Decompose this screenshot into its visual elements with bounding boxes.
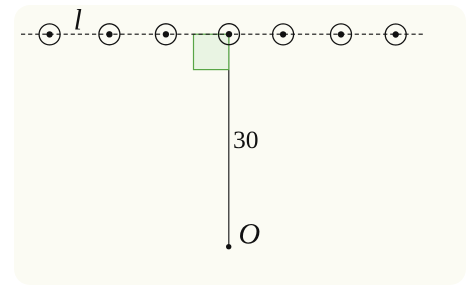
- svg-text:l: l: [74, 3, 82, 36]
- current symbol 4 (above point O): [219, 24, 240, 45]
- current symbol 7: [385, 24, 406, 45]
- current symbol 2: [99, 24, 120, 45]
- current symbol 3: [155, 24, 176, 45]
- node O (endpoint dot): [226, 244, 231, 249]
- current symbol 1 (circle with dot, current out of page): [39, 24, 60, 45]
- current symbol 6: [331, 24, 352, 45]
- svg-text:O: O: [239, 218, 261, 251]
- wire: dashed axis line l: [21, 33, 423, 35]
- right-angle marker: green square: [194, 34, 229, 69]
- current symbol 5: [273, 24, 294, 45]
- wire: vertical line from wire array to point O: [228, 34, 230, 246]
- svg-text:30: 30: [233, 125, 259, 154]
